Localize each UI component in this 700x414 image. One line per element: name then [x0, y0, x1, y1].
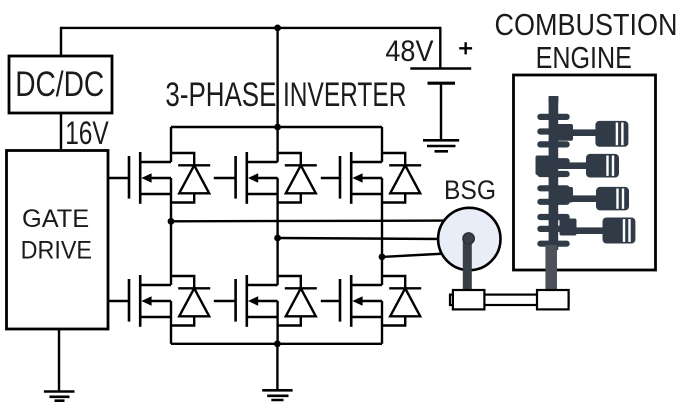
wire: inverter negative rail: [171, 343, 382, 345]
wire: leg 3 high-side drain riser: [381, 127, 383, 162]
wire: Q1 source down to phase node 1: [170, 178, 172, 221]
ground: gate drive: [44, 392, 75, 401]
wire: 16V rail DC/DC to gate drive: [60, 113, 62, 151]
icon: engine piston 3 with connecting rod: [570, 187, 629, 211]
wire: Q2 source down to phase node 2: [276, 178, 278, 238]
wire: gate lead to Q2: [214, 177, 236, 179]
ground: inverter negative: [262, 390, 292, 400]
svg-text:3-PHASE: 3-PHASE: [165, 76, 276, 114]
wire: gate lead to Q5: [214, 300, 236, 302]
wire: phase node 2 to low-side drain: [276, 238, 278, 285]
transistor Q3 (high-side MOSFET leg 3): [340, 152, 382, 204]
node: phase 1 junction: [168, 218, 175, 225]
icon: drive belt: [450, 295, 569, 305]
svg-text:DC/DC: DC/DC: [15, 64, 104, 104]
diode D3 (body diode of Q3): [382, 153, 421, 203]
node: negative rail ground junction: [274, 340, 281, 347]
label: + polarity: [459, 42, 472, 54]
battery BT1 negative plate (short): [428, 82, 456, 85]
wire: drop to DC/DC input: [60, 27, 62, 56]
wire: Q6 source down to negative rail: [381, 301, 383, 344]
icon: engine output shaft to pulley: [545, 245, 557, 291]
motor BSG body: [438, 208, 500, 270]
icon: engine piston 1 with connecting rod: [570, 121, 628, 147]
wire: gate drive to ground: [58, 329, 60, 392]
wire: gate lead to Q1: [108, 177, 129, 179]
diode D4 (body diode of Q4): [171, 276, 210, 326]
wire: leg 2 high-side drain riser: [276, 127, 278, 162]
wire: drop to battery positive: [439, 27, 441, 69]
wire: phase 1 line to BSG: [171, 219, 448, 222]
node: positive rail junction: [274, 124, 281, 131]
battery BT1 48V positive plate (long): [410, 67, 471, 70]
transistor Q1 (high-side MOSFET leg 1): [129, 152, 171, 204]
diode D5 (body diode of Q5): [278, 276, 317, 326]
diode D2 (body diode of Q2): [278, 153, 317, 203]
wire: gate lead to Q6: [321, 300, 340, 302]
diode D1 (body diode of Q1): [171, 153, 210, 203]
transistor Q4 (low-side MOSFET leg 1): [129, 275, 171, 327]
node: phase 3 junction: [379, 254, 386, 261]
wire: gate lead to Q3: [321, 177, 340, 179]
svg-text:INVERTER: INVERTER: [283, 76, 406, 114]
transistor Q2 (high-side MOSFET leg 2): [236, 152, 278, 204]
transistor Q6 (low-side MOSFET leg 3): [340, 275, 382, 327]
wire: Q4 source down to negative rail: [170, 301, 172, 344]
wire: Q3 source down to phase node 3: [381, 178, 383, 257]
transistor Q5 (low-side MOSFET leg 2): [236, 275, 278, 327]
wire: 48V top bus rail: [61, 27, 440, 29]
icon: BSG pulley: [453, 290, 485, 309]
node: phase 2 junction: [274, 235, 281, 242]
svg-text:ENGINE: ENGINE: [536, 40, 632, 75]
svg-text:DRIVE: DRIVE: [21, 237, 92, 265]
block: combustion engine: [514, 75, 656, 270]
wire: negative rail to ground: [276, 344, 278, 391]
block: gate drive: [7, 151, 109, 330]
block: DC/DC converter: [9, 56, 112, 113]
wire: main 48V bus drop to inverter rail: [276, 28, 278, 127]
icon: engine piston 4 with connecting rod: [574, 218, 635, 244]
svg-text:COMBUSTION: COMBUSTION: [495, 7, 678, 42]
node: top-rail junction: [274, 25, 281, 32]
wire: Q5 source down to negative rail: [276, 301, 278, 344]
icon: engine crankshaft: [536, 96, 577, 250]
wire: battery negative to ground: [440, 83, 442, 140]
icon: engine pulley: [537, 290, 569, 309]
diode D6 (body diode of Q6): [382, 276, 421, 326]
svg-text:48V: 48V: [385, 35, 433, 68]
wire: phase 3 line to BSG: [382, 254, 446, 257]
ground: battery: [423, 140, 459, 151]
icon: BSG shaft hub: [463, 233, 474, 244]
wire: phase node 3 to low-side drain: [381, 257, 383, 285]
wire: phase 2 line to BSG: [278, 238, 444, 239]
wire: inverter positive rail: [171, 126, 382, 128]
icon: BSG shaft to pulley: [463, 239, 472, 291]
wire: gate lead to Q4: [108, 300, 129, 302]
svg-text:BSG: BSG: [444, 175, 496, 205]
icon: engine piston 2 with connecting rod: [552, 154, 619, 178]
svg-text:16V: 16V: [65, 114, 109, 151]
wire: leg 1 high-side drain riser: [170, 127, 172, 162]
svg-text:GATE: GATE: [22, 205, 89, 233]
wire: phase node 1 to low-side drain: [170, 221, 172, 285]
